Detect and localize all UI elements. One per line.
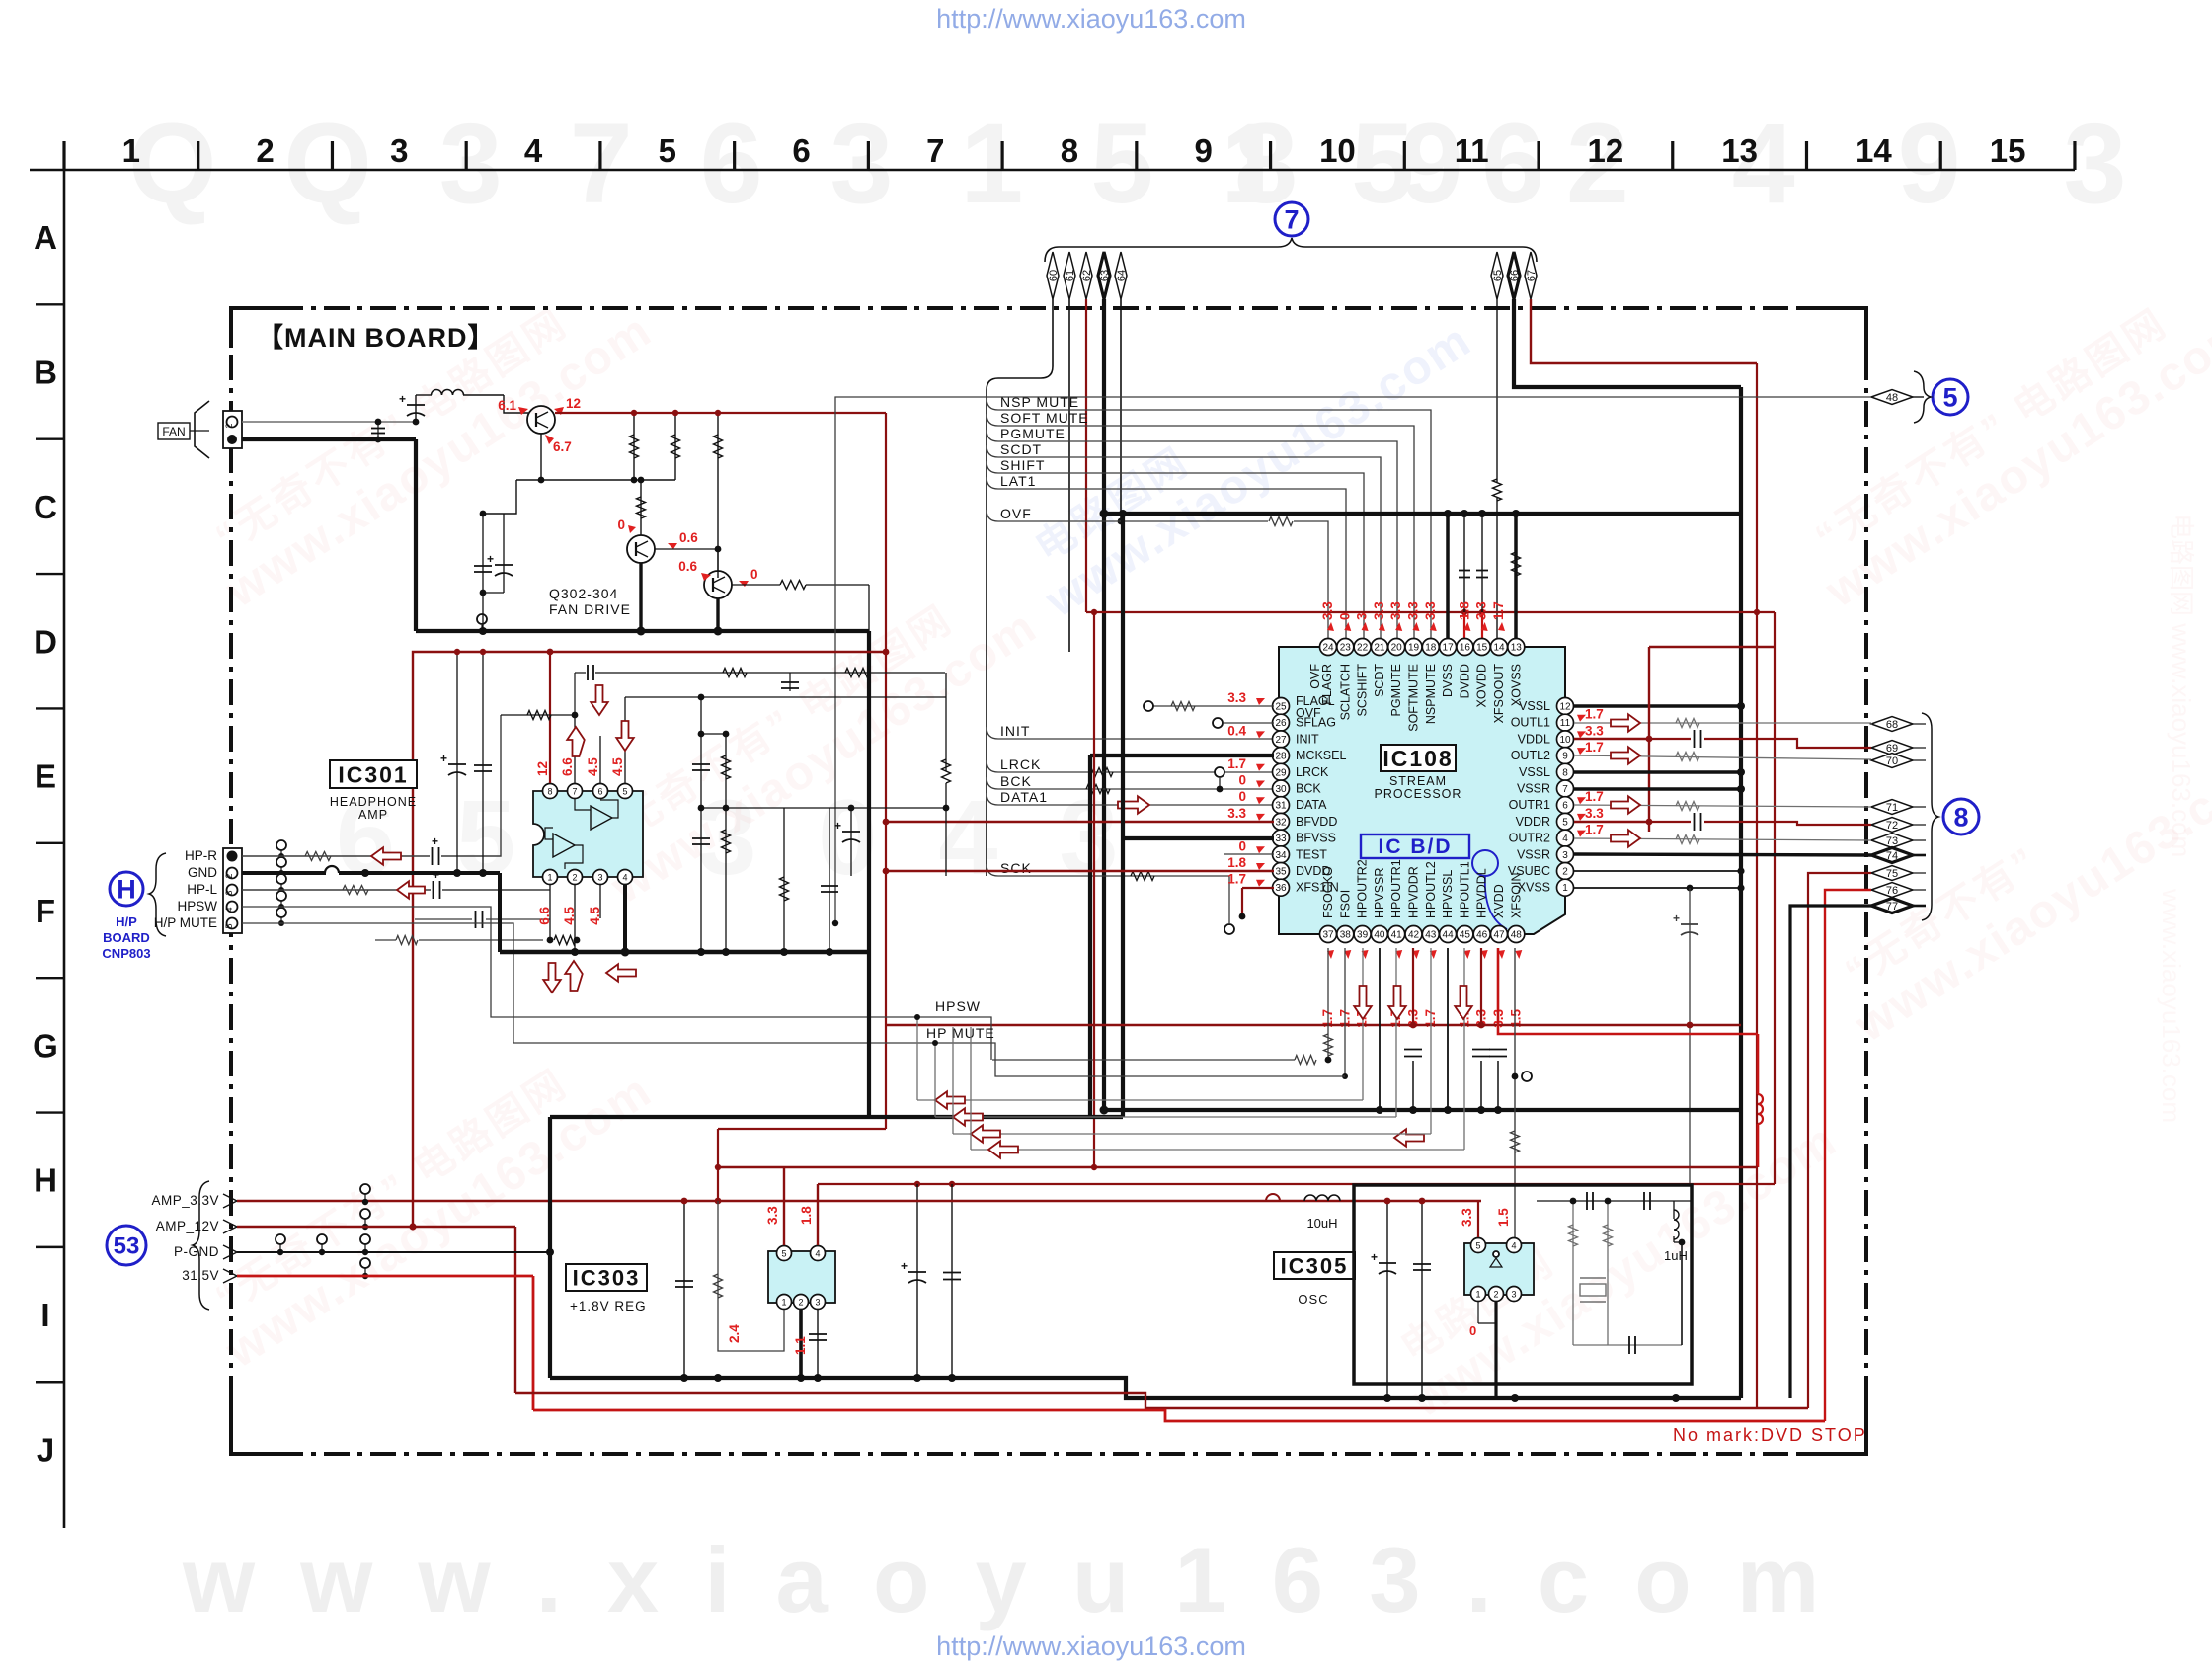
IC305 label box (1274, 1252, 1355, 1279)
bottom rail dark red (515, 1393, 1808, 1408)
svg-text:XVDD: XVDD (1492, 884, 1506, 918)
net label SCDT (987, 445, 1381, 640)
svg-text:31.5V: 31.5V (182, 1268, 219, 1283)
red drop to osc rail (1757, 1034, 1760, 1094)
svg-text:12: 12 (1559, 702, 1571, 713)
net label SOFT MUTE (987, 414, 1414, 640)
connector pin diamond 62 (1080, 252, 1092, 299)
pin7 net (574, 715, 576, 783)
wire pin34 TEST (1224, 853, 1274, 855)
wire pin26 SFLAG (1224, 722, 1274, 724)
connector pin diamond 77 (1871, 899, 1913, 913)
svg-text:37: 37 (1322, 930, 1334, 941)
svg-text:25: 25 (1275, 702, 1287, 713)
main board boundary (231, 306, 1866, 310)
wire 31.5V red (237, 1275, 533, 1278)
IC108 left pin 25 FLAGL!OVF (1273, 698, 1290, 715)
IC301 pin 5 (618, 784, 633, 799)
arrows above IC301 (567, 727, 585, 756)
svg-text:SOFT MUTE: SOFT MUTE (1000, 410, 1089, 426)
svg-text:1.8: 1.8 (1457, 601, 1471, 620)
svg-text:10: 10 (1319, 132, 1356, 169)
svg-text:1.7: 1.7 (1491, 601, 1506, 620)
svg-text:14: 14 (1856, 132, 1892, 169)
wire pin41 HPOUTR1 (1395, 948, 1397, 1117)
IC305 pin 1 (1471, 1287, 1486, 1302)
red loop around IC301 (413, 652, 886, 1227)
svg-text:3: 3 (390, 132, 408, 169)
svg-text:LAT1: LAT1 (1000, 473, 1036, 489)
red tap 3.3 rail (717, 1129, 719, 1201)
cap fan filter (377, 422, 379, 439)
bold vertical BFVSS net (1121, 514, 1125, 1117)
connector pin diamond 68 (1871, 717, 1913, 732)
opamp B (553, 834, 575, 857)
IC108 right pin 1 XVSS (1557, 879, 1574, 896)
svg-text:PROCESSOR: PROCESSOR (1375, 787, 1462, 801)
svg-text:4: 4 (1562, 834, 1568, 844)
svg-text:AMP: AMP (358, 808, 388, 822)
svg-text:MCKSEL: MCKSEL (1296, 749, 1346, 762)
svg-text:A: A (34, 219, 57, 256)
svg-text:62: 62 (1081, 270, 1093, 281)
connector pin diamond 60 (1047, 252, 1059, 299)
svg-text:4: 4 (1511, 1241, 1516, 1251)
wire pin42 HPVDDR red (1412, 948, 1414, 1025)
base resistor Q303 (640, 480, 642, 535)
svg-text:+: + (834, 819, 841, 833)
connector pin diamond 65 (1491, 252, 1503, 299)
IC305 pin 2 (1489, 1287, 1504, 1302)
net label NSP MUTE (987, 398, 1431, 640)
svg-text:VSSR: VSSR (1517, 847, 1550, 861)
IC301 pin 6 (593, 784, 608, 799)
testpoints on rails (360, 1184, 370, 1194)
svg-text:5: 5 (659, 132, 676, 169)
svg-text:HPOUTL1: HPOUTL1 (1458, 861, 1471, 918)
IC IC303 body (768, 1251, 835, 1303)
cap on DVDD (1459, 570, 1470, 572)
svg-text:6.1: 6.1 (498, 398, 516, 413)
svg-text:2: 2 (572, 873, 577, 883)
svg-text:1: 1 (122, 132, 140, 169)
svg-text:4.5: 4.5 (610, 757, 625, 776)
svg-text:DATA1: DATA1 (1000, 789, 1048, 805)
svg-text:73: 73 (1886, 835, 1898, 847)
osc bottom cap (1573, 1344, 1682, 1346)
svg-text:4.5: 4.5 (586, 757, 600, 776)
IC303 pin3 cap (817, 1310, 819, 1378)
svg-text:w w w . x i a o y u 1 6 3 . c: w w w . x i a o y u 1 6 3 . c o m (182, 1528, 1829, 1631)
wire pin8 VSSL bold (1574, 770, 1741, 774)
svg-text:64: 64 (1116, 270, 1128, 281)
svg-text:16: 16 (1460, 643, 1471, 654)
Q302 emitter down (540, 434, 542, 480)
svg-text:IC303: IC303 (573, 1265, 641, 1290)
svg-text:3: 3 (1562, 850, 1568, 861)
IC108 top pin 16 DVDD (1457, 639, 1473, 656)
wire pin62 red (1085, 299, 1087, 612)
blue annotation circle (1472, 850, 1498, 876)
svg-text:13: 13 (1511, 643, 1523, 654)
IC108 left pin 34 TEST (1273, 846, 1290, 863)
net label INIT (987, 727, 1274, 739)
svg-text:【MAIN BOARD】: 【MAIN BOARD】 (257, 323, 496, 353)
IC305 feed 3.3 (1477, 1201, 1479, 1237)
resistor right of Q304 (732, 584, 780, 586)
svg-text:72: 72 (1886, 820, 1898, 832)
pin4 bold ground (623, 885, 627, 952)
svg-text:BCK: BCK (1296, 782, 1321, 796)
svg-text:SCDT: SCDT (1373, 664, 1386, 697)
IC108 right pin 5 VDDR (1557, 813, 1574, 830)
IC108 bottom pin 41 HPOUTR1 (1388, 926, 1405, 943)
IC108 bottom pin 44 HPVSSL (1440, 926, 1457, 943)
svg-text:5: 5 (1475, 1241, 1480, 1251)
svg-text:HPSW: HPSW (178, 899, 218, 913)
svg-text:1.7: 1.7 (1227, 756, 1246, 771)
svg-text:HEADPHONE: HEADPHONE (330, 795, 417, 809)
wire pin48 XFSOIN (1514, 948, 1516, 1243)
svg-text:3.3: 3.3 (1320, 601, 1335, 620)
svg-text:+: + (440, 752, 447, 765)
red rail 1199 (818, 1183, 1775, 1185)
IC108 top pin 20 PGMUTE (1388, 639, 1405, 656)
svg-text:22: 22 (1357, 643, 1369, 654)
wire pin11 OUTL1 to 68 (1574, 722, 1871, 724)
svg-text:XOVDD: XOVDD (1475, 664, 1489, 707)
resistor on XOVSS vertical (1512, 552, 1521, 576)
IC303 pin2 ground bold (799, 1310, 803, 1378)
connector pin diamond 67 (1525, 252, 1537, 299)
IC303 feed 1.8 (817, 1184, 819, 1245)
OSC enclosure (1354, 1185, 1692, 1384)
brace for 5 (1914, 371, 1931, 423)
svg-text:3.3: 3.3 (1227, 690, 1246, 705)
IC108 bottom pin 45 HPOUTL1 (1457, 926, 1473, 943)
svg-text:3: 3 (224, 890, 234, 895)
svg-text:1: 1 (1475, 1290, 1480, 1300)
svg-text:8: 8 (1061, 132, 1078, 169)
svg-text:32: 32 (1275, 817, 1287, 828)
IC108 right pin 8 VSSL (1557, 763, 1574, 780)
pin6 net (599, 736, 601, 783)
svg-text:HPVDDR: HPVDDR (1407, 866, 1421, 918)
wire pin2 VSUBC (1574, 870, 1741, 872)
svg-text:0.4: 0.4 (1227, 723, 1246, 738)
IC108 right pin 3 VSSR (1557, 846, 1574, 863)
svg-text:2: 2 (224, 423, 234, 428)
feed to 76 red (1825, 890, 1871, 1421)
svg-text:VDDL: VDDL (1518, 732, 1550, 746)
svg-text:H: H (34, 1162, 57, 1199)
Q304 emitter bold (716, 598, 719, 631)
connector pin diamond 70 (1871, 754, 1913, 768)
wire HP-L (242, 889, 431, 891)
net label OVF (987, 510, 1268, 521)
hp out line 4 (971, 1149, 1464, 1151)
svg-text:BFVSS: BFVSS (1296, 832, 1336, 845)
svg-text:http://www.xiaoyu163.com: http://www.xiaoyu163.com (936, 1631, 1246, 1661)
svg-text:1.7: 1.7 (1227, 872, 1246, 887)
fan wire ground bold (242, 437, 416, 441)
svg-text:STREAM: STREAM (1389, 774, 1447, 788)
net label SHIFT (987, 461, 1364, 640)
svg-text:2: 2 (798, 1298, 803, 1308)
svg-text:15: 15 (1990, 132, 2026, 169)
svg-text:7: 7 (572, 787, 577, 797)
svg-text:XFSOIN: XFSOIN (1509, 872, 1523, 918)
svg-text:12: 12 (1588, 132, 1624, 169)
IC301 pin 1 (543, 870, 558, 885)
osc buffer symbol (1490, 1258, 1502, 1267)
ref circle H (110, 872, 143, 906)
svg-text:5: 5 (622, 787, 627, 797)
wire pin7 VSSR bold (1574, 787, 1741, 791)
wire 12V to pin8 (549, 652, 551, 783)
svg-text:2: 2 (1562, 867, 1568, 878)
wire pin12 VSSL bold (1574, 704, 1741, 708)
wire pin67 red (1531, 299, 1757, 363)
IC303 pin 2 (794, 1295, 809, 1310)
svg-text:6.6: 6.6 (560, 757, 575, 776)
svg-text:3.3: 3.3 (1585, 723, 1604, 738)
svg-text:LRCK: LRCK (1000, 756, 1041, 772)
IC108 bottom pin 40 HPVSSR (1371, 926, 1387, 943)
connector pin diamond 75 (1871, 866, 1913, 881)
svg-text:HPVDDL: HPVDDL (1475, 868, 1489, 918)
diamond 68 wire tail (1871, 723, 1872, 725)
svg-text:GND: GND (188, 865, 217, 880)
svg-text:30: 30 (1275, 784, 1287, 795)
svg-text:40: 40 (1374, 930, 1385, 941)
svg-text:+: + (399, 392, 406, 406)
svg-text:3.3: 3.3 (1474, 601, 1489, 620)
IC108 top pin 19 SOFTMUTE (1405, 639, 1422, 656)
svg-text:VSSL: VSSL (1519, 699, 1550, 713)
svg-text:61: 61 (1065, 270, 1076, 281)
AMP_12V drop (514, 1227, 516, 1393)
svg-text:11: 11 (1560, 718, 1571, 729)
svg-text:7: 7 (1562, 784, 1568, 795)
svg-text:1.7: 1.7 (1585, 740, 1604, 755)
svg-text:3.3: 3.3 (1227, 806, 1246, 821)
svg-text:21: 21 (1374, 643, 1385, 654)
crystal (1580, 1284, 1606, 1296)
svg-text:67: 67 (1526, 270, 1538, 281)
svg-text:VSSR: VSSR (1517, 782, 1550, 796)
svg-text:VSSL: VSSL (1519, 765, 1550, 779)
caps left of IC301 (456, 652, 458, 873)
connector pin diamond 74 (1871, 848, 1913, 863)
wire pin39 HPOUTR2 (1362, 948, 1364, 1100)
hop on 3.3 rail (1266, 1194, 1280, 1201)
svg-text:42: 42 (1408, 930, 1420, 941)
wire pin35 DVDD red (886, 870, 1274, 872)
red rail 1182 (718, 1166, 1758, 1168)
connector pin diamond 69 (1871, 741, 1913, 755)
rc network right of IC301 (700, 697, 702, 952)
connector pin diamond 76 (1871, 883, 1913, 898)
IC108 bottom pin 48 XFSOIN (1508, 926, 1525, 943)
svg-text:0: 0 (750, 567, 758, 582)
svg-text:H/P: H/P (116, 914, 137, 929)
svg-text:6: 6 (597, 787, 602, 797)
svg-text:77: 77 (1886, 901, 1898, 913)
svg-text:+: + (432, 834, 438, 848)
wire pin33 BFVSS bold (1123, 836, 1274, 840)
IC108 bottom pin 47 XVDD (1491, 926, 1508, 943)
cap in osc (1421, 1201, 1423, 1398)
IC305 pin 4 (1507, 1238, 1522, 1253)
wire pin5 VDDR red (1574, 821, 1649, 823)
svg-text:39: 39 (1357, 930, 1369, 941)
svg-text:SCSHIFT: SCSHIFT (1356, 664, 1370, 717)
IC108 right pin 6 OUTR1 (1557, 797, 1574, 814)
svg-text:IC301: IC301 (338, 761, 408, 787)
svg-text:3.3: 3.3 (1585, 806, 1604, 821)
svg-text:B: B (34, 355, 57, 391)
IC108 right pin 9 OUTL2 (1557, 748, 1574, 764)
connector pin HPSW (227, 902, 238, 913)
caps under fan drive (483, 480, 516, 514)
svg-text:0: 0 (1337, 612, 1352, 620)
IC301 ground bus bold (500, 950, 869, 954)
bias resistors fan (633, 413, 635, 480)
red rail vertical 1779 (1756, 363, 1758, 1408)
svg-text:HPSW: HPSW (935, 998, 981, 1014)
net label SCK (987, 864, 1229, 923)
svg-text:BCK: BCK (1000, 773, 1032, 789)
svg-text:75: 75 (1886, 868, 1898, 880)
svg-text:4: 4 (224, 907, 234, 912)
svg-text:9: 9 (1195, 132, 1213, 169)
wire pin61 (1068, 299, 1070, 652)
svg-text:+1.8V REG: +1.8V REG (570, 1299, 647, 1313)
svg-text:18: 18 (1425, 643, 1437, 654)
transistor Q303 (627, 535, 655, 563)
svg-text:0: 0 (1238, 789, 1246, 804)
IC108 top pin 18 NSPMUTE (1422, 639, 1439, 656)
resistor on LRCK line (1089, 768, 1113, 777)
IC108 left pin 35 DVDD (1273, 863, 1290, 880)
svg-text:38: 38 (1340, 930, 1352, 941)
svg-text:+: + (901, 1259, 908, 1273)
svg-text:0: 0 (1469, 1323, 1476, 1338)
svg-text:I: I (40, 1297, 49, 1333)
FAN label (158, 423, 190, 439)
svg-text:FAN DRIVE: FAN DRIVE (549, 601, 631, 617)
wire pin9 OUTL2 to 70 (1574, 755, 1871, 759)
svg-text:0: 0 (1238, 773, 1246, 788)
svg-text:60: 60 (1048, 270, 1060, 281)
svg-text:OVF: OVF (1000, 506, 1032, 521)
wire pin63 bold (1102, 299, 1106, 1110)
svg-text:1.8: 1.8 (1227, 855, 1246, 870)
wire pin4 OUTR2 to 73 (1574, 838, 1871, 840)
svg-text:17: 17 (1443, 643, 1455, 654)
svg-text:71: 71 (1886, 802, 1898, 814)
svg-text:OUTL2: OUTL2 (1511, 749, 1550, 762)
connector pin H/P MUTE (227, 918, 238, 929)
svg-text:+: + (1673, 912, 1680, 925)
svg-text:OUTR1: OUTR1 (1509, 798, 1550, 812)
ground bus row C bold (1103, 512, 1741, 516)
ref circle 53 (107, 1226, 146, 1265)
svg-text:3.3: 3.3 (1460, 1208, 1474, 1227)
bottom ground bus bold (550, 1378, 1741, 1398)
red rail under IC108 (886, 1024, 1741, 1026)
svg-text:F: F (36, 893, 55, 929)
svg-text:OUTL1: OUTL1 (1511, 716, 1550, 730)
svg-text:7: 7 (1284, 205, 1299, 235)
IC303 pin 4 (811, 1246, 826, 1261)
IC IC301 body (533, 791, 643, 877)
svg-text:6: 6 (792, 132, 810, 169)
svg-text:65: 65 (1492, 270, 1504, 281)
svg-text:3: 3 (597, 873, 602, 883)
rc row upper resistors (723, 669, 747, 677)
svg-text:PGMUTE: PGMUTE (1000, 426, 1066, 441)
wire pin47 XVDD red (1498, 948, 1758, 1034)
svg-text:10: 10 (1559, 735, 1571, 746)
svg-text:35: 35 (1275, 867, 1287, 878)
Q303 emitter bold (639, 563, 642, 631)
svg-text:XFSOOUT: XFSOOUT (1492, 664, 1506, 724)
svg-text:3: 3 (815, 1298, 820, 1308)
svg-text:5: 5 (1942, 383, 1957, 413)
IC108 left pin 27 INIT (1273, 731, 1290, 748)
IC108 right pin 7 VSSR (1557, 780, 1574, 797)
svg-text:P-GND: P-GND (174, 1244, 219, 1259)
cap on mute net (415, 918, 472, 920)
wire pin66 bold (1514, 299, 1741, 387)
connector pin diamond 63 (1098, 252, 1110, 299)
VDDR feed to 72 (1649, 821, 1691, 823)
svg-text:FAN: FAN (162, 425, 185, 438)
IC108 left pin 33 BFVSS (1273, 830, 1290, 846)
svg-text:4: 4 (815, 1249, 820, 1259)
svg-text:26: 26 (1275, 718, 1287, 729)
svg-text:1uH: 1uH (1664, 1248, 1688, 1263)
red vertical center net (885, 413, 887, 1129)
wire pin38 FSOI (1344, 948, 1346, 1076)
brace for connector 7 (1045, 238, 1537, 262)
connector pin diamond 73 (1871, 834, 1913, 848)
svg-text:0: 0 (1238, 838, 1246, 853)
IC108 label box (1381, 745, 1456, 771)
wire pin28 MCKSEL bold (1090, 754, 1274, 757)
svg-text:76: 76 (1886, 885, 1898, 897)
svg-text:63: 63 (1099, 270, 1111, 281)
osc coil 1uH (1626, 1201, 1628, 1234)
hp out line 1 (917, 1099, 1363, 1101)
IC108 bottom pin 37 FSOCKO (1320, 926, 1337, 943)
bold gnd L ic301 to ic303 (867, 952, 871, 1117)
IC108 left pin 26 SFLAG (1273, 714, 1290, 731)
wire pin37 FSOCKO (1327, 948, 1329, 1060)
svg-text:6.7: 6.7 (553, 439, 572, 454)
svg-text:3.3: 3.3 (1406, 601, 1421, 620)
svg-text:TEST: TEST (1296, 847, 1327, 861)
IC305 pin2 gnd (1494, 1302, 1497, 1398)
svg-text:0.6: 0.6 (679, 530, 698, 545)
svg-text:HP-L: HP-L (187, 882, 217, 897)
svg-text:3.3: 3.3 (765, 1206, 780, 1225)
svg-text:4: 4 (524, 132, 543, 169)
connector pin diamond 61 (1064, 252, 1075, 299)
svg-text:48: 48 (1886, 392, 1898, 404)
